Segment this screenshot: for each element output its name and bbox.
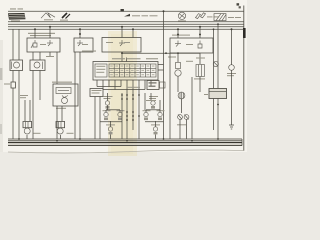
small text block left [20, 95, 28, 96]
wire: sensor FL leads [24, 100, 26, 121]
relay box 4 [170, 38, 213, 53]
connector ring [178, 92, 185, 99]
indicator lamp [227, 65, 236, 77]
label above relay box 1 [28, 33, 55, 34]
relay box 2 [74, 38, 93, 52]
ground rail 2 [8, 140, 242, 142]
wire: drops to motor M2 [32, 52, 34, 60]
fusible link FL2 dark glyph [60, 13, 70, 21]
fusible link block (black hatched) [8, 13, 26, 22]
page frame bottom line [8, 150, 244, 153]
page frame right border [243, 6, 245, 151]
wire: ECU bottom stubs [97, 80, 151, 139]
relay box 3 [102, 38, 141, 53]
wire: sensor FR lead [60, 135, 62, 139]
shielded cable pair [213, 55, 218, 89]
wire: below ring [181, 99, 183, 113]
rail junction dots [18, 138, 219, 142]
wire: bus line 4 [8, 28, 244, 30]
yellow highlighter band [108, 31, 137, 156]
wire: B+ top bus [8, 10, 244, 12]
wire: bus line 2 [8, 23, 244, 25]
wire: bus to relay box 1 [34, 29, 36, 38]
wire: manifold below ECU [97, 86, 121, 88]
motor M1 box [10, 60, 23, 71]
arrow to other system [121, 9, 158, 17]
ground rail 3 (thick) [8, 142, 242, 144]
junction text box left [90, 89, 103, 97]
motor M2 box [30, 60, 45, 71]
wire: shielded pair below [213, 99, 215, 131]
wire: long vertical x163 [163, 11, 165, 139]
wire: short bus taps at right [213, 29, 215, 55]
diode and coil component [175, 63, 181, 77]
wire: right area verticals [169, 53, 171, 139]
label left above ECU [82, 51, 96, 52]
pump unit left [106, 124, 115, 134]
wire: relay box5 drops [56, 106, 58, 139]
relay box 5 with motor [53, 84, 78, 106]
relay box 1 [27, 38, 60, 52]
solenoid (hatched) right [194, 65, 205, 80]
wire: ECU right side links [158, 64, 164, 66]
solenoid SRR [157, 110, 165, 120]
wire: bus to relay box 4 [177, 29, 179, 38]
small text above top bus [10, 8, 16, 9]
connector block on shielded pair [204, 89, 227, 99]
wire: bus to relay box 3 [121, 27, 123, 38]
pump unit right [151, 124, 160, 134]
wire: center-left verticals [99, 97, 101, 139]
ground rail 4 [8, 145, 242, 147]
wire: check connector leads [179, 120, 181, 139]
wire: bus to relay box 2 [79, 29, 81, 38]
left edge scan smudge [0, 68, 2, 80]
fusible link parallelograms [196, 13, 219, 19]
wire: below fuse [12, 88, 14, 139]
wire: bus line 1 [8, 21, 244, 23]
wire: lamp drops [231, 29, 233, 64]
wire: M1 M2 down drops [12, 71, 14, 83]
solenoid SRL [143, 110, 151, 120]
solenoid SFL [103, 110, 111, 120]
page background [0, 0, 250, 156]
ground rail 1 [8, 138, 242, 140]
wire: solenoid row links [106, 109, 120, 111]
solenoid SA2 [149, 96, 158, 109]
speed sensor FR [56, 122, 65, 135]
label above relay box 5 [52, 82, 72, 83]
ground for lamp [229, 125, 234, 129]
ABS ECU U1 [93, 62, 158, 81]
fuse on wire [4, 82, 15, 88]
label above ECU [112, 58, 125, 59]
junction block J2 [146, 81, 165, 102]
wire: center mesh [106, 93, 160, 139]
label above relay box 4 [172, 35, 190, 36]
wire: cross link y55 [122, 52, 200, 54]
check connector [178, 115, 189, 120]
wire: right drops below box4 [177, 53, 179, 62]
page number mark top-right [237, 3, 240, 5]
wire: drops from relay box1 bottom [56, 52, 58, 84]
connector circle symbol [178, 12, 186, 21]
solenoid SFR [117, 110, 125, 120]
wire: long drop left pair [12, 29, 14, 60]
solenoid SA1 [104, 96, 113, 109]
fusible link FL1 zigzag symbol [41, 13, 55, 20]
speed sensor FL [23, 122, 32, 135]
noise filter (hatched box) [214, 14, 241, 21]
wire: bus line 3 [8, 26, 244, 28]
